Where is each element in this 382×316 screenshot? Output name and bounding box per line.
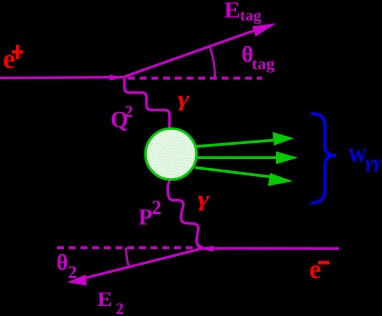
wire: incoming positron beam line	[0, 76, 124, 79]
arrowhead on positron beam	[110, 75, 123, 81]
arrowhead on electron beam	[198, 246, 213, 252]
arc angle theta_tag	[210, 47, 215, 78]
arrowhead E_2	[67, 275, 87, 286]
svg-text:γγ: γγ	[365, 152, 382, 172]
green arrow bottom (hadron)	[195, 168, 272, 178]
svg-text:e: e	[309, 254, 321, 284]
svg-text:tag: tag	[240, 7, 262, 24]
dashed line top (beam direction)	[128, 77, 262, 80]
green arrow middle (hadron)	[197, 156, 280, 159]
svg-text:tag: tag	[252, 56, 275, 73]
arrowhead E_tag	[252, 23, 276, 36]
svg-text:E: E	[224, 0, 241, 22]
photon wavy line Q2 (top)	[125, 78, 170, 129]
svg-text:e: e	[3, 44, 15, 75]
wire: scattered electron line E_2	[85, 248, 203, 278]
blue curly brace	[311, 114, 336, 204]
svg-text:θ: θ	[57, 250, 69, 275]
svg-text:2: 2	[125, 102, 134, 121]
wire: scattered tagged positron line E_tag	[124, 29, 258, 77]
arc angle theta_2	[126, 248, 129, 267]
svg-text:W: W	[348, 145, 367, 167]
svg-text:2: 2	[68, 262, 77, 282]
photon wavy line P2 (bottom)	[168, 178, 203, 248]
hadronic blob	[146, 129, 197, 180]
svg-text:2: 2	[152, 197, 162, 219]
svg-text:P: P	[139, 205, 153, 230]
svg-text:2: 2	[116, 301, 124, 316]
svg-text:γ: γ	[198, 186, 211, 211]
dashed line bottom (beam direction)	[57, 246, 200, 249]
wire: incoming electron beam line	[203, 247, 339, 250]
svg-text:E: E	[97, 289, 112, 311]
svg-text:γ: γ	[178, 86, 191, 111]
green arrow top (hadron)	[196, 140, 276, 147]
